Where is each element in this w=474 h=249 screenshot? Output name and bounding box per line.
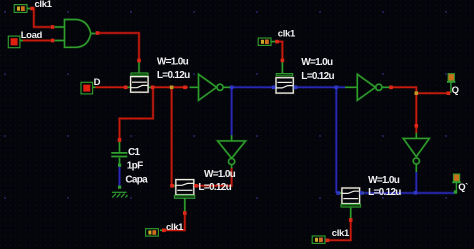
svg-text:W=1.0u: W=1.0u	[301, 57, 333, 68]
svg-text:W=1.0u: W=1.0u	[157, 57, 189, 68]
svg-text:W=1.0u: W=1.0u	[368, 175, 400, 186]
svg-text:L=0.12u: L=0.12u	[157, 70, 190, 81]
svg-text:Q`: Q`	[458, 182, 468, 193]
svg-text:C1: C1	[128, 147, 141, 158]
svg-text:1pF: 1pF	[127, 161, 143, 172]
svg-text:Load: Load	[21, 30, 43, 41]
svg-text:W=1.0u: W=1.0u	[204, 169, 236, 180]
svg-text:L=0.12u: L=0.12u	[198, 182, 231, 193]
svg-text:clk1: clk1	[332, 228, 350, 239]
svg-text:D: D	[94, 77, 101, 88]
svg-text:clk1: clk1	[278, 28, 296, 39]
svg-text:L=0.12u: L=0.12u	[301, 71, 334, 82]
svg-text:L=0.12u: L=0.12u	[368, 187, 401, 198]
svg-text:clk1: clk1	[35, 0, 53, 10]
svg-text:Capa: Capa	[125, 175, 148, 186]
svg-text:Q: Q	[452, 85, 459, 96]
svg-text:clk1: clk1	[166, 222, 184, 233]
